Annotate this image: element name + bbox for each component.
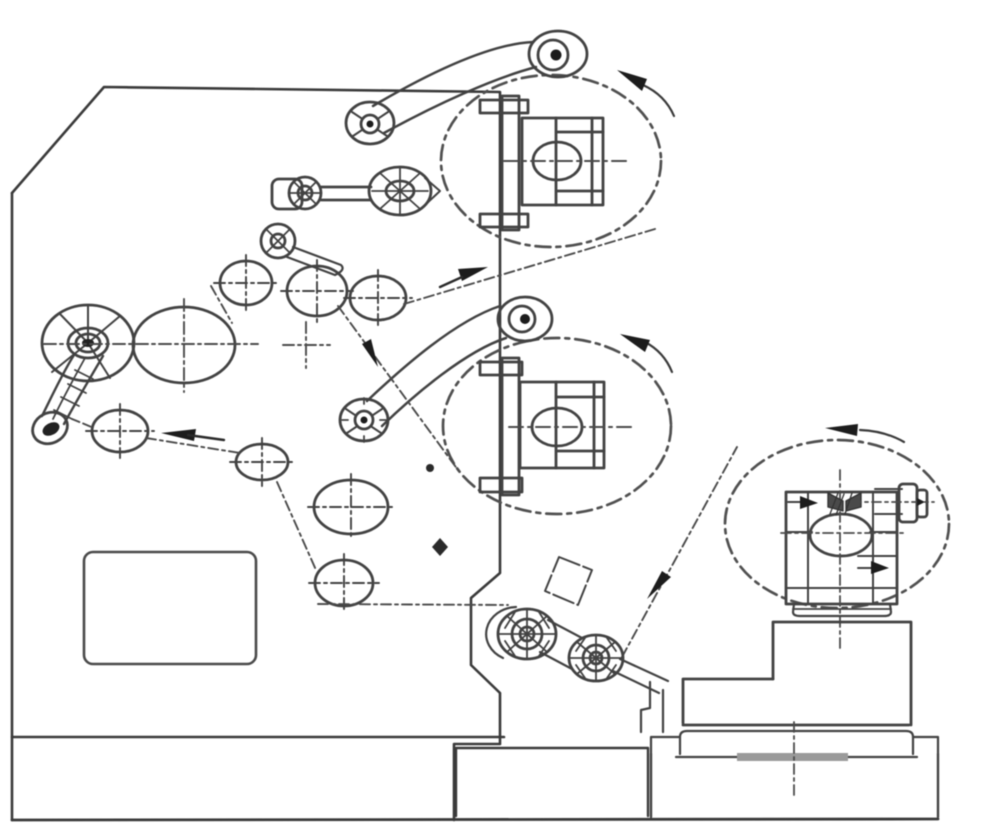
section arrow left [788,501,802,503]
knurled roller on link [369,167,431,215]
frame base top line [12,736,504,739]
linkage connector [540,620,582,669]
web arrow pointing left [161,429,196,441]
unwind base block [651,737,938,754]
horizontal link rod [321,187,371,200]
unwind roll dashed circle [725,440,949,608]
standalone center cross [283,322,330,368]
print unit 1 idler pulley [529,31,587,77]
print unit 1 arm pivot [346,102,394,144]
nip hub 1 outer arc [486,607,516,658]
door panel [84,552,256,664]
roll core ellipse [810,514,872,556]
splice dot mark [426,464,434,472]
print unit 1 dancer arm [373,42,533,106]
print unit 2 centerline [509,426,633,428]
shaft flange [899,484,917,522]
slab shadow strip [737,753,848,761]
dancer arm end roller [27,406,73,449]
web line dancer roller to R4 [72,419,94,428]
section arrow right [858,567,872,569]
support bracket to base [641,682,663,732]
roller R2 [287,266,347,316]
print unit 1 bracket [502,96,519,230]
print unit 1 rotation arrow [643,85,674,116]
roller R1 [220,261,272,305]
angled link arm [287,247,343,275]
web line R3 down to unit 2 [338,306,458,470]
unwind motor block [786,492,897,604]
base slab [680,731,913,754]
pedestal [773,622,911,725]
nip hub 2 [569,635,623,681]
machine frame outline [12,87,500,820]
big roller centerline [44,343,258,345]
big idler roller [133,307,235,383]
web line big roller to R1 [211,286,232,323]
linkage support arm [613,659,668,693]
dancer wheel [42,305,134,381]
web arrow pointing down [362,339,378,367]
frame left edge [11,193,14,820]
horizontal link clevis [272,179,302,209]
shaft arm right [875,489,902,514]
middle plinth [456,748,648,816]
motor skirt [793,604,891,616]
print unit 2 idler pulley [498,297,552,341]
web arrow pointing up-right [458,267,488,281]
print unit 2 bracket [502,358,519,495]
unwind rotation arrow [860,430,904,442]
drive coupling hatched [828,493,843,511]
registration diamond mark [432,538,448,556]
web line R7 to nip hub [318,604,508,605]
print unit 1 dashed cylinder circle [441,75,661,247]
roller R6 [314,480,388,534]
print unit 2 gear box [520,382,604,468]
shaft centerline with tick [852,501,934,503]
print unit 1 centerline [504,160,631,162]
print unit 2 dashed cylinder circle [443,338,671,514]
web line R3 to print unit 1 [404,229,655,304]
angled link hub [261,224,295,258]
dancer lever arm [42,355,103,424]
roller R5 [236,444,288,480]
base centerline [793,722,795,798]
roller R4 [92,410,148,452]
print unit 2 dancer arm [367,306,500,401]
core centerline vertical [839,470,841,648]
web line unwind roll to nip linkage [622,447,737,657]
web line R5 to R7 [277,482,316,570]
bottom base line [12,819,938,820]
nip hub 1 [498,609,556,659]
print unit 2 arm pivot [340,399,388,441]
web line R5 to R4 [146,438,240,453]
tilted guide plate [545,557,592,605]
print unit 1 gear box [522,118,603,205]
web arrow pointing down-left [647,571,671,599]
core centerline horizontal [781,532,903,534]
roller R3 [350,276,406,320]
print unit 2 rotation arrow [645,342,672,372]
roller R7 [315,560,373,606]
